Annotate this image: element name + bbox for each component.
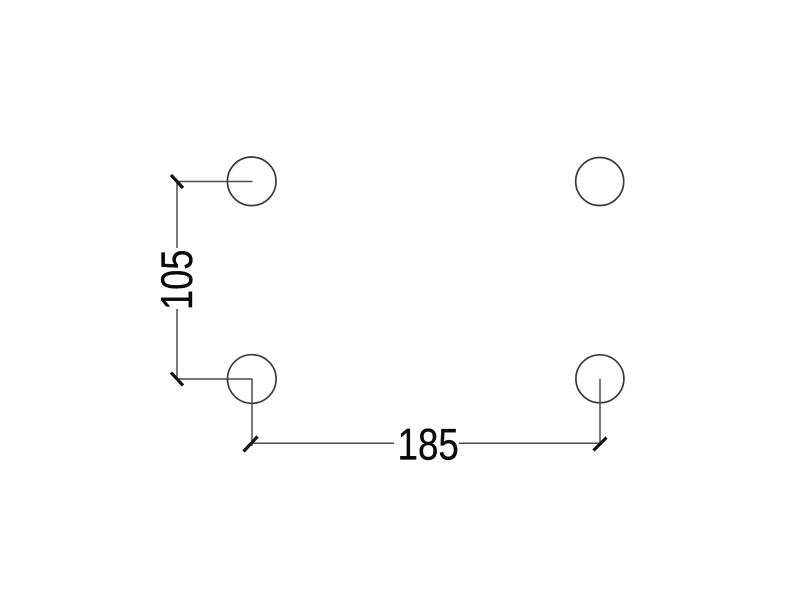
hole circle bottom-left <box>228 355 277 404</box>
extension line down from bottom-right hole center <box>599 379 601 444</box>
horizontal dimension line (185) <box>252 442 600 444</box>
white mask behind 185 label <box>394 425 459 462</box>
svg-text:185: 185 <box>398 421 459 470</box>
extension line down from bottom-left hole center <box>251 379 253 446</box>
tick mark at right of horizontal dimension <box>594 438 607 451</box>
hole circle bottom-right <box>576 355 624 403</box>
white mask behind 105 label <box>160 248 194 309</box>
extension line from top-left hole center to vertical dimension line <box>177 181 253 183</box>
tick mark at left of horizontal dimension <box>244 437 258 452</box>
hole circle top-right <box>576 158 624 206</box>
vertical dimension line (105) <box>176 182 178 380</box>
tick mark at top of vertical dimension <box>171 175 183 188</box>
extension line from bottom-left hole center to vertical dimension line <box>177 378 253 380</box>
hole circle top-left <box>227 157 276 206</box>
svg-text:105: 105 <box>153 250 202 311</box>
tick mark at bottom of vertical dimension <box>171 373 183 386</box>
